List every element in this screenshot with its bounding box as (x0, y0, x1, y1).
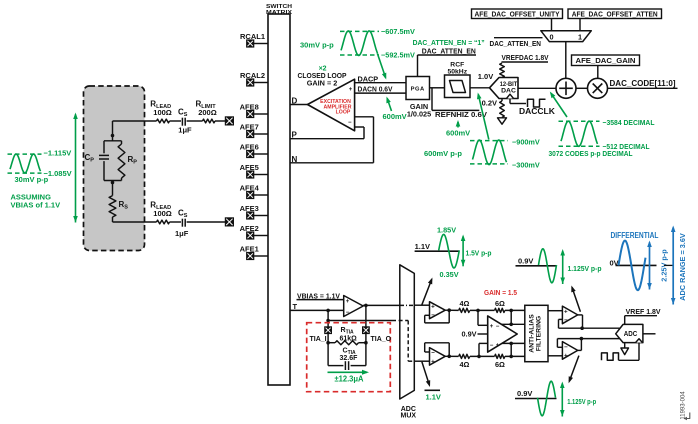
terminal TIA_I (325, 327, 332, 334)
label +/-12.3uA (335, 374, 364, 383)
wire UNITY to mux (551, 19, 553, 31)
feedback rise bottom (510, 343, 512, 356)
wire AA to buffer4 (548, 355, 562, 357)
label P (292, 131, 298, 140)
svg-text:DAC: DAC (501, 88, 516, 95)
green arrow to DAC-summer wire (550, 92, 567, 118)
wire D from switch matrix (290, 104, 308, 106)
wire TIA_I to RTIA (327, 334, 329, 366)
wire AA to buffer3 (548, 310, 562, 312)
resistor 6ohm top (495, 308, 505, 312)
label 1.85V (437, 225, 456, 234)
plus mark (349, 87, 353, 93)
label 1.0V (478, 72, 493, 81)
node (509, 355, 513, 359)
label mux 1 (578, 32, 582, 41)
node (477, 355, 481, 359)
wire TIA_O drop (365, 305, 367, 326)
annotation 0.9V baseline bottom (515, 389, 557, 398)
ADC MUX trapezoid (400, 265, 415, 399)
node T/TIA_I junction (326, 309, 330, 313)
pin AFE2 (240, 224, 268, 239)
label D (292, 97, 298, 106)
label 2.25V p-p (rotated) (659, 249, 668, 282)
svg-text:LOOP: LOOP (336, 110, 351, 116)
minus mark (431, 312, 435, 319)
blue double arrow ADC RANGE (671, 226, 676, 305)
ADC output wire (643, 333, 656, 335)
node (509, 342, 513, 346)
label -3584 DECIMAL (603, 118, 656, 127)
svg-text:+: + (349, 87, 353, 93)
wire bottom lead out of sensor (113, 217, 157, 222)
label 30mV p-p (15, 175, 49, 184)
label VREF 1.8V (626, 307, 661, 316)
svg-text:6Ω: 6Ω (495, 299, 505, 308)
external terminal bottom (225, 218, 233, 226)
svg-text:1μF: 1μF (175, 229, 189, 238)
green dashed level lines (340, 31, 379, 55)
svg-text:1μF: 1μF (178, 126, 192, 135)
label -512 DECIMAL (603, 142, 650, 151)
green vertical double arrow across sensor (73, 113, 78, 223)
green dashed level lines (8, 154, 42, 173)
label EXCITATION AMPLIFIER LOOP (red) (320, 99, 352, 115)
waveform 30mV p-p at DAC output (green sine with tail arrow) (341, 31, 386, 80)
wire VREFDAC 1.8V (502, 61, 549, 63)
svg-text:32.6F: 32.6F (340, 355, 359, 362)
label ADC RANGE = 3.6V (rotated) (678, 233, 687, 301)
label 12-BIT DAC (500, 81, 518, 95)
label R_LEAD 100ohm bottom (150, 201, 172, 219)
svg-text:+: + (490, 324, 494, 330)
svg-text:DAC_ATTEN_EN = “1”: DAC_ATTEN_EN = “1” (413, 38, 485, 47)
pin RCAL2 (240, 71, 268, 86)
svg-text:0.35V: 0.35V (440, 270, 459, 279)
svg-text:−300mV: −300mV (512, 161, 540, 170)
return arrow glyph (684, 413, 690, 421)
wire diff amp out bottom (502, 342, 525, 344)
waveform differential (blue sine) (619, 241, 646, 291)
svg-text:+: + (346, 299, 350, 305)
resistor RTIA 61k (328, 341, 366, 345)
multiplier circle (588, 78, 608, 98)
svg-text:3072 CODES p-p DECIMAL: 3072 CODES p-p DECIMAL (549, 149, 633, 158)
svg-text:TIA_I: TIA_I (310, 336, 327, 343)
resistor 4ohm top (459, 308, 470, 312)
svg-text:200Ω: 200Ω (198, 108, 217, 117)
wire DAC_ATTEN_EN select (494, 37, 543, 39)
wire to diff amp - input (479, 343, 488, 356)
svg-text:±12.3μA: ±12.3μA (335, 374, 364, 383)
black arrow up from buffer3 (571, 286, 580, 312)
node top of Cp/Rp (111, 134, 115, 138)
buffer P feedback loop (425, 310, 450, 323)
label 600mV p-p (424, 149, 462, 158)
green dashed level lines (470, 141, 508, 164)
capacitor CS bottom 1uF (182, 219, 185, 227)
minus mark (346, 310, 350, 316)
svg-text:100Ω: 100Ω (153, 209, 172, 218)
svg-text:600mV: 600mV (383, 112, 407, 121)
waveform 600mV p-p (green sine) (473, 140, 507, 165)
wire buffer output (363, 304, 400, 306)
wire top lead into sensor (113, 121, 157, 141)
waveform 1.125V p-p bottom (green, inverted) (538, 381, 556, 416)
label PGA (411, 87, 425, 93)
wire T from switch matrix (290, 309, 344, 311)
label DACP (358, 74, 379, 83)
label ADC (624, 329, 638, 338)
minus mark (564, 344, 568, 351)
plus mark (564, 309, 568, 316)
svg-text:+: + (431, 304, 435, 311)
label VREFDAC 1.8V (502, 53, 549, 62)
node (509, 309, 513, 313)
label 6ohm top (495, 299, 505, 308)
svg-text:DACP: DACP (358, 74, 379, 83)
pin RCAL1 (240, 32, 268, 47)
svg-text:4Ω: 4Ω (460, 299, 470, 308)
annotation 0V baseline (616, 264, 657, 266)
minus mark (431, 350, 435, 357)
label GAIN 1/0.025 (407, 102, 431, 118)
label RTIA 61kohm (340, 327, 358, 342)
wire (187, 120, 203, 122)
svg-text:−: − (431, 312, 435, 319)
svg-text:100Ω: 100Ω (153, 108, 172, 117)
svg-text:1.1V: 1.1V (415, 242, 430, 251)
waveform 1.125V p-p top (green) (539, 249, 557, 283)
label CP (85, 153, 95, 164)
diff amp marks top (490, 324, 500, 330)
op-amp post buffer N (562, 342, 577, 360)
label 0.35V (440, 270, 459, 279)
svg-text:600mV p-p: 600mV p-p (424, 149, 462, 158)
svg-text:−900mV: −900mV (512, 137, 540, 146)
svg-text:MUX: MUX (401, 412, 417, 419)
label R_LIMIT 200ohm (196, 100, 217, 118)
svg-text:ANTI-ALIAS: ANTI-ALIAS (529, 314, 536, 353)
svg-text:T: T (293, 302, 298, 311)
figure number 11993-004 (rotated) (680, 391, 686, 420)
svg-text:11993-004: 11993-004 (680, 391, 686, 420)
label 3072 CODES p-p DECIMAL (549, 149, 633, 158)
label CS 1uF bottom (175, 208, 189, 238)
svg-text:REFNHIZ 0.6V: REFNHIZ 0.6V (435, 110, 487, 119)
wire VREF 1.8V (625, 316, 657, 325)
label -900mV (512, 137, 540, 146)
wire DAC to summer (518, 87, 556, 89)
label 0.9V vocm (461, 330, 476, 339)
TIA red dashed box (307, 323, 391, 392)
svg-text:0.9V: 0.9V (517, 389, 532, 398)
svg-text:−: − (346, 310, 350, 316)
switch matrix box (268, 14, 290, 385)
external terminal top (225, 117, 233, 125)
wire gain box to multiplier (597, 66, 599, 79)
svg-text:0.9V: 0.9V (461, 330, 476, 339)
wire TIA node to ADC mux (328, 320, 392, 322)
label VBIAS = 1.1V (297, 291, 340, 300)
svg-text:−: − (431, 350, 435, 357)
svg-text:D: D (292, 97, 298, 106)
wire (505, 355, 525, 357)
resistor R_LEAD bottom 100ohm (157, 220, 170, 224)
wire ATTEN to mux (579, 19, 581, 31)
label ASSUMING VBIAS of 1.1V (11, 193, 61, 210)
pin AFE6 (240, 143, 268, 158)
waveform 30mV p-p excitation at sensor (green sine) (10, 154, 41, 173)
baseline tick to range arrow (664, 264, 673, 266)
AFE_DAC_OFFSET_UNITY box (472, 9, 563, 19)
svg-text:FILTERING: FILTERING (536, 316, 543, 351)
wire to diff amp + input (478, 310, 488, 325)
wire DAC_ATTEN_EN to PGA (418, 55, 477, 77)
svg-text:0.2V: 0.2V (482, 99, 497, 108)
label R_LEAD 100ohm top (150, 100, 172, 118)
parallel network rails (104, 141, 122, 181)
label CLOSED LOOP GAIN = 2 (298, 71, 347, 88)
svg-text:1.85V: 1.85V (437, 225, 456, 234)
wire PGA to RCF (430, 87, 445, 89)
pin AFE5 (240, 163, 268, 178)
label x2 (green) (319, 66, 327, 73)
svg-text:−: − (496, 324, 500, 330)
label DACN 0.6V (358, 84, 393, 93)
anti-alias filtering box (525, 305, 548, 361)
svg-text:−3584 DECIMAL: −3584 DECIMAL (603, 118, 656, 127)
pin AFE4 (240, 184, 268, 199)
label 600mV (383, 112, 407, 121)
minus mark (348, 120, 352, 126)
12-bit DAC symbol (490, 78, 519, 99)
svg-text:VREF 1.8V: VREF 1.8V (626, 307, 661, 316)
pin AFE8 (240, 103, 268, 118)
label DAC_CODE[11:0] (610, 78, 676, 88)
green arrow to RCF-DAC wire (477, 93, 489, 140)
label -300mV (512, 161, 540, 170)
svg-text:−1.115V: −1.115V (44, 148, 72, 157)
wire P feedback (290, 127, 364, 139)
pin AFE1 (240, 245, 268, 260)
wire (170, 221, 182, 223)
svg-text:ADC: ADC (624, 329, 638, 338)
label GAIN = 1.5 (red) (484, 288, 517, 297)
label mux 0 (549, 32, 553, 41)
label REFNHIZ 0.6V (435, 110, 487, 119)
resistor R_LIMIT 200ohm (203, 119, 215, 123)
pin AFE7 (240, 123, 268, 138)
label ADC MUX (401, 406, 417, 420)
buffer4 output and feedback (557, 339, 581, 351)
svg-text:1/0.025: 1/0.025 (407, 109, 431, 118)
label RP (128, 155, 138, 166)
capacitor CP (99, 141, 109, 181)
node (364, 341, 368, 345)
label 1.1V with bar (mux low ref) (425, 390, 441, 401)
svg-text:+: + (496, 343, 500, 349)
svg-text:+: + (564, 353, 568, 360)
RCF box (445, 75, 471, 98)
wire into mux (dash-dot through) (400, 304, 430, 306)
svg-text:DAC_ATTEN_EN: DAC_ATTEN_EN (490, 39, 542, 48)
annotation 1.1V baseline (415, 242, 460, 251)
svg-text:−: − (564, 344, 568, 351)
resistor above DAC (500, 63, 505, 78)
ADC ground triangle (621, 343, 629, 355)
black arrow up to 1.5V annotation (422, 278, 433, 305)
label 4ohm bottom (460, 360, 470, 369)
label DAC_ATTEN_EN = 1 (green) (413, 38, 485, 47)
waveform 1.5V p-p (green sine) (439, 234, 460, 268)
label RS (119, 200, 129, 211)
node (326, 341, 330, 345)
label CS 1uF top (178, 107, 192, 134)
wire TIA_I drop (327, 310, 329, 326)
green double arrow 1.5V p-p (461, 235, 466, 267)
wire buffer4 to ADC (581, 338, 619, 340)
node (447, 308, 451, 312)
wire (187, 221, 226, 223)
svg-text:1.1V: 1.1V (426, 393, 441, 402)
svg-text:+: + (431, 358, 435, 365)
svg-text:0.9V: 0.9V (518, 257, 533, 266)
resistor 6ohm bottom (495, 354, 505, 358)
wire summer to multiplier (576, 87, 588, 89)
RCF filter glyph (450, 81, 466, 93)
svg-text:ADC RANGE = 3.6V: ADC RANGE = 3.6V (678, 233, 687, 301)
label 6ohm bottom (495, 360, 505, 369)
PGA box (406, 77, 430, 100)
summer circle (556, 78, 576, 98)
op-amp ADC buffer N (430, 348, 446, 366)
wire (470, 309, 495, 311)
svg-text:1: 1 (578, 32, 582, 41)
label -607.5mV (381, 27, 415, 36)
label N (292, 155, 298, 164)
node TIA wire junction (326, 319, 330, 323)
wire vocm (478, 333, 488, 335)
svg-text:AFE_DAC_GAIN: AFE_DAC_GAIN (576, 56, 636, 65)
op-amp VBIAS buffer (344, 296, 364, 317)
switch matrix label (266, 4, 292, 16)
wire diff amp out top (501, 323, 525, 325)
svg-text:−: − (490, 343, 494, 349)
op-amp ADC buffer P (430, 302, 446, 319)
minus mark (564, 317, 568, 324)
resistor 4ohm bottom (459, 354, 470, 358)
op-amp post buffer P (562, 306, 577, 324)
plus mark (431, 304, 435, 311)
label DIFFERENTIAL (blue) (611, 231, 659, 240)
wire TIA_O to RTIA (365, 334, 367, 366)
label 0.2V (482, 99, 497, 108)
svg-text:AFE_DAC_OFFSET_ATTEN: AFE_DAC_OFFSET_ATTEN (572, 10, 658, 19)
black arrow down to 1.1V annotation (422, 362, 430, 387)
green current arrow (328, 370, 370, 375)
wire (445, 309, 458, 311)
svg-text:DIFFERENTIAL: DIFFERENTIAL (611, 231, 659, 240)
svg-text:4Ω: 4Ω (460, 360, 470, 369)
capacitor CS top 1uF (182, 118, 185, 126)
resistor RP (118, 141, 125, 181)
label DAC_ATTEN_EN (PGA) (422, 46, 476, 55)
resistor R_LEAD top 100ohm (157, 119, 170, 123)
svg-text:1.125V p-p: 1.125V p-p (568, 264, 603, 273)
wire DACN (355, 92, 406, 94)
svg-text:+: + (564, 309, 568, 316)
wire mux to summer (565, 42, 567, 79)
label -592.5mV (381, 51, 415, 60)
wire DACP (355, 82, 406, 84)
svg-text:1.0V: 1.0V (478, 72, 493, 81)
svg-text:−: − (564, 317, 568, 324)
label 0V (610, 258, 619, 267)
resistor RS (109, 196, 116, 217)
annotation 0.9V baseline top (516, 257, 557, 266)
svg-text:1.125V p-p: 1.125V p-p (567, 397, 596, 406)
svg-text:DACN 0.6V: DACN 0.6V (358, 84, 393, 93)
plus mark (431, 358, 435, 365)
svg-text:VREFDAC 1.8V: VREFDAC 1.8V (502, 53, 549, 62)
ADC clock caret (636, 339, 643, 343)
label 1.125V p-p bottom (567, 397, 596, 406)
node output/TIA_O junction (364, 304, 368, 308)
svg-text:600mV: 600mV (446, 129, 470, 138)
wire (445, 355, 458, 357)
label DACCLK (519, 106, 556, 116)
wire N feedback (290, 117, 374, 163)
node (509, 323, 513, 327)
svg-text:DAC_CODE[11:0]: DAC_CODE[11:0] (610, 78, 676, 88)
black arrow down from buffer4 (569, 356, 579, 384)
svg-text:−607.5mV: −607.5mV (381, 27, 415, 36)
green double arrow 1.125V bottom (560, 382, 565, 417)
svg-text:−592.5mV: −592.5mV (381, 51, 415, 60)
label 1.125V p-p top (568, 264, 603, 273)
pin AFE3 (240, 204, 268, 219)
resistor below DAC (500, 99, 505, 118)
svg-text:AFE_DAC_OFFSET_UNITY: AFE_DAC_OFFSET_UNITY (475, 10, 560, 19)
label -1.115V (44, 148, 72, 157)
ADC squarewave glyph (602, 353, 619, 360)
svg-text:61kΩ: 61kΩ (340, 335, 358, 342)
plus mark (346, 299, 350, 305)
ADC symbol (616, 324, 643, 342)
node (580, 337, 584, 341)
wire (505, 309, 525, 311)
diff amp marks bottom (490, 343, 500, 349)
buffer3 output and feedback (559, 315, 583, 328)
label 30mV p-p (300, 41, 334, 50)
DAC clock caret (507, 94, 514, 98)
blue double arrow 2.25V p-p (647, 241, 652, 290)
svg-text:50kHz: 50kHz (447, 68, 467, 75)
svg-text:30mV p-p: 30mV p-p (300, 41, 334, 50)
label T (293, 302, 298, 311)
wire DACCLK (510, 99, 526, 104)
svg-text:−: − (348, 120, 352, 126)
feedback drop top (510, 310, 512, 324)
op-amp differential gain amp (488, 316, 518, 352)
green up arrow 600mV (446, 120, 470, 138)
waveform 3072 codes (green sine) (561, 121, 598, 146)
wire DAC_CODE out (608, 87, 678, 89)
wire (215, 120, 226, 122)
green arrow to DACN wire (386, 97, 391, 112)
svg-text:DAC_ATTEN_EN: DAC_ATTEN_EN (422, 46, 476, 55)
